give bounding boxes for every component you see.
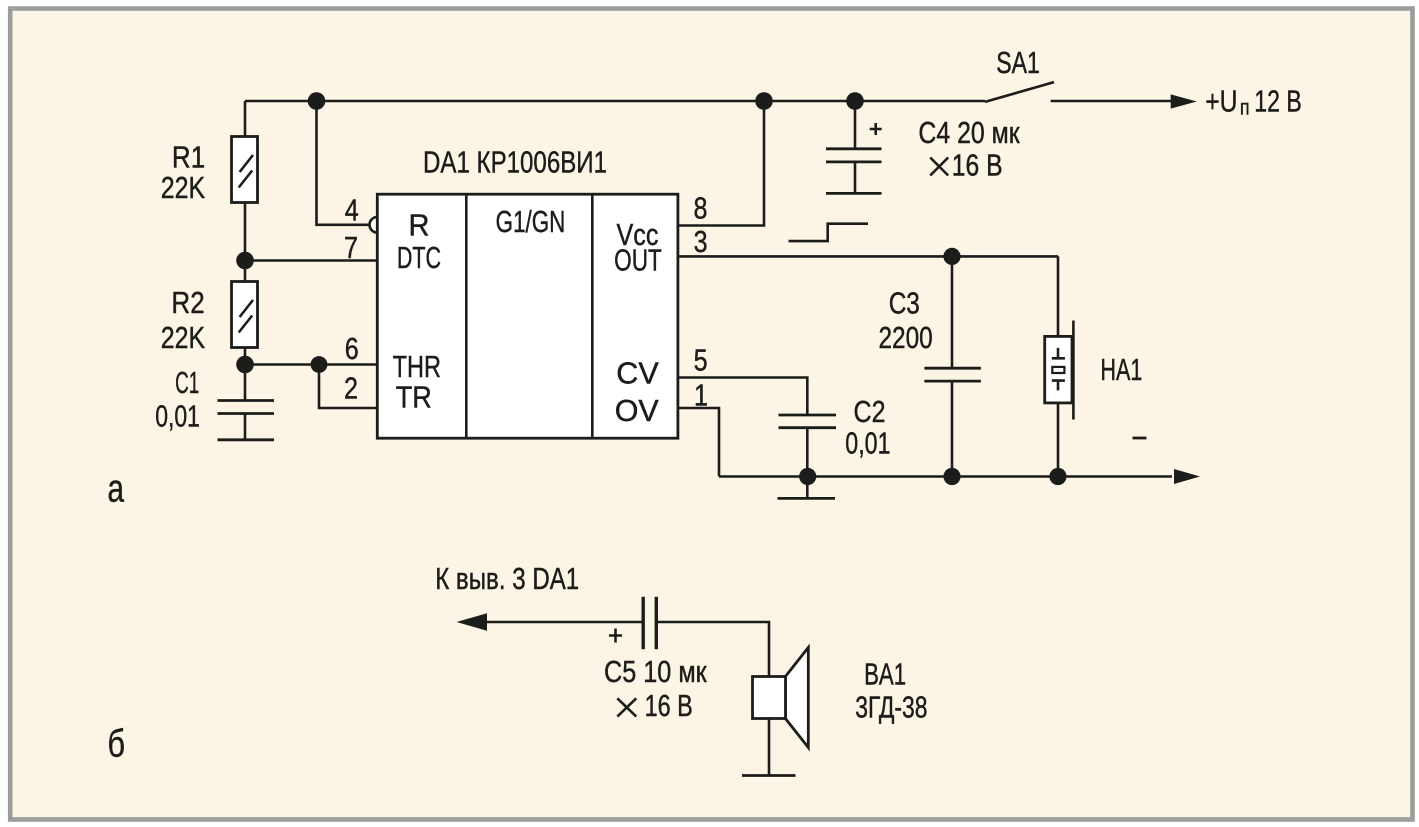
wire pin3 OUT net bbox=[678, 255, 1058, 258]
svg-text:С5 10 мк: С5 10 мк bbox=[604, 654, 707, 689]
svg-text:OV: OV bbox=[615, 393, 659, 428]
label IC pin names bbox=[393, 204, 662, 428]
svg-text:22K: 22K bbox=[161, 320, 206, 355]
svg-text:CV: CV bbox=[616, 356, 659, 391]
wire R1-R2 bbox=[244, 203, 247, 282]
node pin6-pin2 junction bbox=[311, 356, 328, 373]
svg-text:2: 2 bbox=[344, 371, 358, 406]
C4 plus sign bbox=[870, 123, 882, 135]
node rail HA1 bbox=[1049, 468, 1066, 485]
label R2 value bbox=[161, 285, 206, 355]
svg-text:0,01: 0,01 bbox=[845, 426, 890, 461]
node OUT-C3 junction bbox=[943, 248, 960, 265]
label pin numbers bbox=[344, 191, 708, 413]
svg-text:DTC: DTC bbox=[397, 240, 441, 275]
svg-text:С4 20 мк: С4 20 мк bbox=[918, 115, 1020, 150]
svg-text:4: 4 bbox=[345, 193, 359, 228]
wire to pin3 with left arrow bbox=[457, 613, 644, 630]
node top rail pin4 branch bbox=[308, 92, 326, 110]
node rail C3 bbox=[943, 468, 960, 485]
wire pin2 TR bbox=[319, 365, 376, 409]
node R1-R2 junction bbox=[236, 252, 254, 270]
svg-text:R: R bbox=[409, 208, 430, 243]
node R2-C1 junction bbox=[236, 356, 254, 374]
wire pin7 DTC bbox=[245, 259, 376, 262]
svg-text:22K: 22K bbox=[161, 170, 206, 205]
resistor R1 bbox=[232, 137, 258, 203]
svg-text:3: 3 bbox=[694, 224, 708, 259]
svg-text:OUT: OUT bbox=[614, 243, 662, 278]
wire R1 top lead bbox=[244, 101, 247, 137]
label C3 value bbox=[879, 286, 933, 355]
wire C5 to speaker bbox=[656, 622, 769, 677]
svg-text:16 В: 16 В bbox=[645, 688, 693, 723]
label C1 value bbox=[155, 365, 200, 434]
svg-text:16 В: 16 В bbox=[952, 148, 1003, 183]
svg-text:7: 7 bbox=[344, 230, 358, 265]
label R1 value bbox=[161, 139, 206, 205]
wire R2 bottom to C1 bbox=[244, 348, 247, 401]
node top rail pin8 branch bbox=[755, 92, 773, 110]
node rail C2 bbox=[799, 468, 816, 485]
svg-text:G1/GN: G1/GN bbox=[496, 204, 566, 239]
label BA1 value bbox=[855, 656, 927, 724]
minus sign bbox=[1133, 437, 1147, 440]
C5 plus sign bbox=[609, 629, 622, 643]
capacitor C1 bbox=[218, 401, 275, 440]
svg-text:SA1: SA1 bbox=[996, 45, 1040, 80]
wire bottom rail bbox=[719, 469, 1200, 484]
svg-text:BA1: BA1 bbox=[864, 656, 906, 691]
buzzer HA1 bbox=[1045, 256, 1074, 476]
pin4 inversion circle bbox=[370, 217, 386, 233]
svg-text:DA1 КР1006ВИ1: DA1 КР1006ВИ1 bbox=[423, 145, 607, 180]
svg-text:5: 5 bbox=[694, 343, 708, 378]
capacitor C5 bbox=[643, 597, 656, 649]
wire pin1 OV to bottom rail bbox=[678, 408, 719, 477]
svg-text:3ГД-38: 3ГД-38 bbox=[855, 689, 927, 724]
svg-text:+Uп12 В: +Uп12 В bbox=[1205, 84, 1302, 120]
wire pin5 CV to C2 bbox=[678, 378, 807, 416]
speaker BA1 bbox=[742, 648, 808, 776]
resistor R2 bbox=[232, 282, 258, 348]
wire pin4 R bbox=[317, 101, 370, 225]
IC DA1 KR1006VI1 (555 timer) bbox=[377, 194, 678, 438]
svg-text:TR: TR bbox=[396, 380, 432, 415]
svg-text:C1: C1 bbox=[175, 365, 199, 400]
node top rail C4 branch bbox=[846, 92, 864, 110]
svg-text:С3: С3 bbox=[889, 286, 920, 321]
step waveform symbol bbox=[789, 224, 869, 241]
ground bar under C2 bbox=[778, 477, 836, 499]
switch SA1 bbox=[985, 82, 1197, 109]
svg-text:С2: С2 bbox=[854, 394, 886, 429]
svg-text:R2: R2 bbox=[171, 285, 204, 320]
capacitor C4 bbox=[826, 101, 882, 193]
wire pin6 THR bbox=[245, 363, 376, 366]
svg-text:0,01: 0,01 bbox=[155, 399, 200, 434]
label C4 value bbox=[918, 115, 1020, 183]
svg-text:б: б bbox=[108, 723, 126, 766]
capacitor C3 bbox=[924, 256, 981, 476]
svg-text:К выв. 3 DA1: К выв. 3 DA1 bbox=[435, 561, 579, 596]
capacitor C2 bbox=[779, 415, 837, 477]
wire pin8 Vcc bbox=[678, 101, 764, 226]
label C2 value bbox=[845, 394, 890, 461]
svg-text:6: 6 bbox=[345, 331, 359, 366]
svg-text:2200: 2200 bbox=[879, 320, 933, 355]
wire top +rail bbox=[245, 100, 985, 103]
svg-text:HA1: HA1 bbox=[1100, 352, 1142, 387]
svg-text:8: 8 bbox=[694, 191, 708, 226]
svg-text:а: а bbox=[108, 468, 125, 511]
label C5 value bbox=[604, 654, 707, 723]
